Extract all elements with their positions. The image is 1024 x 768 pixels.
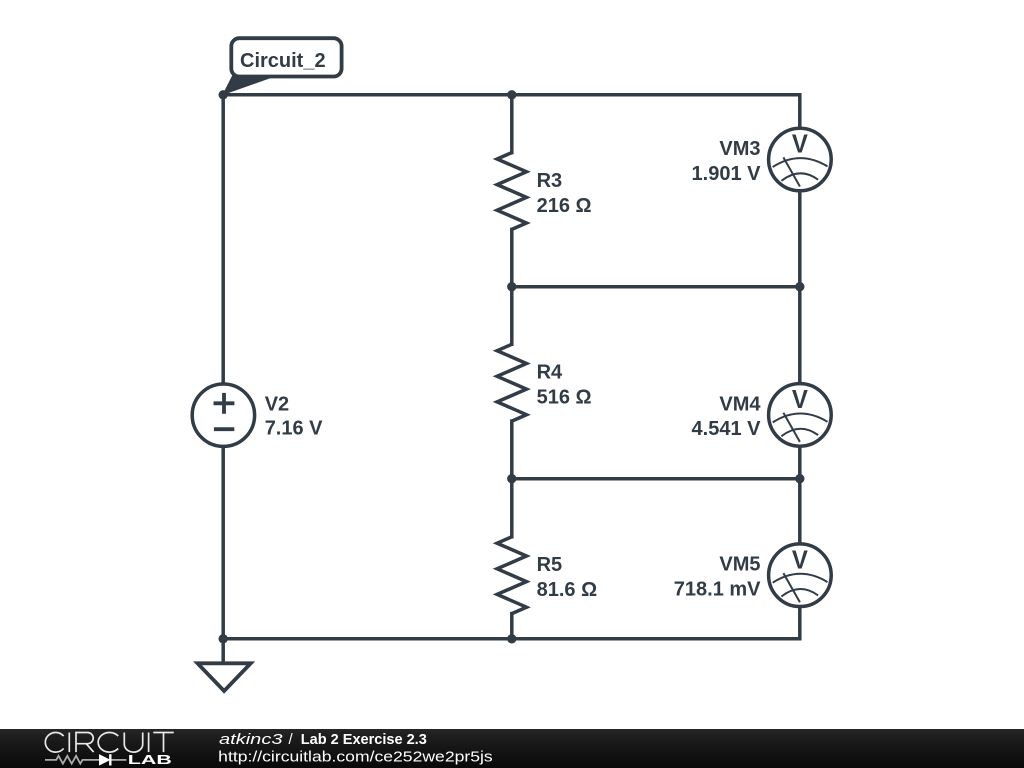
- svg-text:V2: V2: [265, 394, 289, 416]
- label VM5 value: [674, 554, 761, 601]
- svg-text:V: V: [792, 544, 809, 574]
- svg-text:R3: R3: [537, 170, 563, 192]
- logo CircuitLab wordmark CIRCUIT: [45, 732, 173, 752]
- ground: [198, 663, 251, 691]
- svg-text:atkinc3/Lab 2 Exercise 2.3: atkinc3/Lab 2 Exercise 2.3: [219, 731, 427, 748]
- voltmeter VM3: [769, 128, 832, 191]
- voltmeter VM5: [769, 544, 832, 607]
- logo resistor-diode squiggle: [45, 754, 126, 765]
- svg-text:4.541 V: 4.541 V: [692, 418, 762, 440]
- resistor R5: [497, 537, 526, 614]
- svg-text:216 Ω: 216 Ω: [537, 195, 592, 217]
- svg-text:516 Ω: 516 Ω: [537, 387, 592, 409]
- svg-text:R5: R5: [537, 554, 563, 576]
- voltage source V2: [192, 384, 254, 446]
- node E mid row2 left junction dot: [507, 474, 516, 483]
- resistor R3: [497, 153, 526, 230]
- svg-text:LAB: LAB: [128, 752, 172, 767]
- svg-text:http://circuitlab.com/ce252we2: http://circuitlab.com/ce252we2pr5js: [218, 749, 493, 766]
- svg-text:1.901 V: 1.901 V: [692, 163, 762, 185]
- node A top-left junction dot: [219, 90, 228, 99]
- logo LAB text: [128, 752, 172, 767]
- svg-text:VM3: VM3: [719, 138, 760, 160]
- wire R5 bottom lead: [510, 614, 514, 639]
- label R4 value: [537, 362, 592, 409]
- node G bottom-left junction dot: [219, 634, 228, 643]
- node B top-middle junction dot: [507, 90, 516, 99]
- wire R3 top lead: [510, 95, 514, 153]
- resistor R4: [497, 344, 526, 421]
- footer bar: [0, 729, 1024, 768]
- svg-text:V: V: [792, 129, 809, 159]
- wire top horizontal with corner to right rail: [223, 95, 800, 129]
- callout Circuit_2: [223, 38, 341, 94]
- node F mid row2 right junction dot: [795, 474, 804, 483]
- svg-text:Circuit_2: Circuit_2: [240, 50, 326, 72]
- footer title line: [218, 731, 493, 766]
- label R5 value: [537, 554, 598, 601]
- svg-text:7.16 V: 7.16 V: [265, 418, 323, 440]
- label VM4 value: [692, 393, 762, 440]
- label VM3 value: [692, 138, 762, 185]
- node D mid row1 right junction dot: [795, 282, 804, 291]
- wire left rail upper: [221, 95, 225, 384]
- wire R4-R5 link: [510, 421, 514, 537]
- svg-text:V: V: [792, 384, 809, 414]
- node H bottom-middle junction dot: [507, 634, 516, 643]
- wire bottom horizontal with corner to right rail: [223, 607, 800, 639]
- svg-text:VM5: VM5: [719, 554, 760, 576]
- wire ground stem: [221, 639, 225, 664]
- wire right rail segment 3: [798, 446, 802, 544]
- label V2 value: [265, 394, 323, 440]
- svg-text:718.1 mV: 718.1 mV: [674, 579, 761, 601]
- node C mid row1 left junction dot: [507, 282, 516, 291]
- wire left rail lower: [221, 446, 225, 639]
- wire right rail segment 2: [798, 191, 802, 384]
- wire middle horizontal node row 1: [512, 285, 800, 289]
- label R3 value: [537, 170, 592, 217]
- voltmeter VM4: [769, 384, 832, 447]
- wire middle horizontal node row 2: [512, 477, 800, 481]
- svg-text:R4: R4: [537, 362, 563, 384]
- svg-text:81.6 Ω: 81.6 Ω: [537, 579, 598, 601]
- wire R3-R4 link: [510, 229, 514, 344]
- svg-text:VM4: VM4: [719, 393, 761, 415]
